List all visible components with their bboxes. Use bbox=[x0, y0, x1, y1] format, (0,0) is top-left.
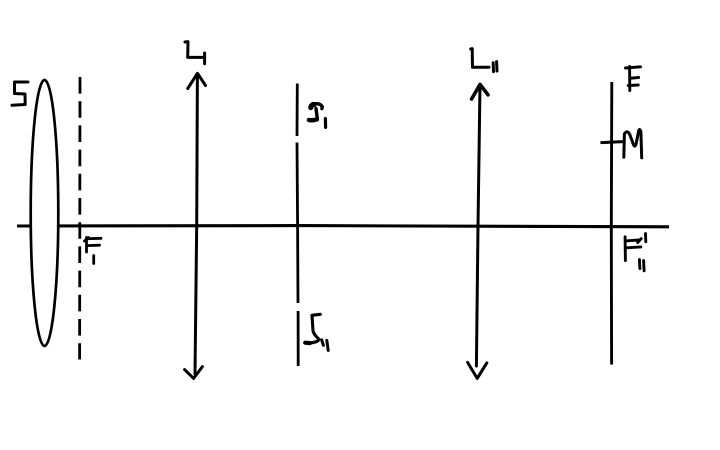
image plane line (right vertical) bbox=[610, 82, 613, 365]
lens L2 (vertical double-headed arrow) bbox=[468, 84, 488, 378]
label L11 bbox=[471, 49, 497, 72]
lens S (tall ellipse, covers axis inside) bbox=[31, 80, 59, 346]
label F (top right, E-like handwritten F) bbox=[626, 67, 641, 91]
aperture stop S1 / S11 (three vertical segments) bbox=[297, 84, 298, 367]
label F'11 (below axis, right) bbox=[625, 234, 646, 271]
lens L1 (vertical double-headed arrow) bbox=[185, 73, 206, 378]
tick mark and label M bbox=[602, 130, 642, 158]
label F1 bbox=[85, 238, 102, 264]
focal plane F1 (dashed vertical line) bbox=[78, 77, 81, 360]
label S bbox=[12, 82, 28, 105]
label L1 bbox=[185, 42, 205, 64]
label S1 bbox=[309, 104, 326, 128]
optical axis bbox=[17, 226, 669, 227]
label S11 bbox=[305, 314, 328, 350]
